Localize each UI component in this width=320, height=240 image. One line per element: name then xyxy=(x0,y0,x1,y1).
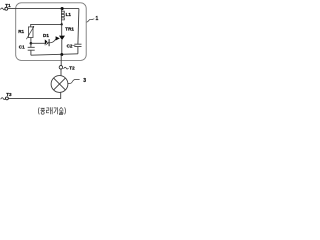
svg-text:C1: C1 xyxy=(19,44,25,49)
node mid junction xyxy=(61,23,63,25)
svg-text:D1: D1 xyxy=(43,33,49,38)
diac D1 xyxy=(45,39,49,46)
node bottom junction xyxy=(60,53,63,56)
wire gate curve xyxy=(49,39,56,43)
resistor R1 arrow xyxy=(26,26,34,39)
caption (jong-rae-gi-sul) xyxy=(38,107,65,114)
svg-text:R1: R1 xyxy=(18,29,24,34)
terminal T2 circle xyxy=(59,66,63,70)
capacitor C1 xyxy=(28,43,35,55)
wire R1 to node A xyxy=(30,38,32,44)
wire L1 to gate node xyxy=(61,22,63,25)
terminal T2 tilde xyxy=(64,67,69,69)
resistor R1 (variable) xyxy=(28,27,33,38)
wire node A to diac xyxy=(31,42,45,44)
wire lamp bottom xyxy=(8,92,60,98)
svg-text:C2: C2 xyxy=(67,43,73,48)
svg-text:L1: L1 xyxy=(66,12,72,17)
lamp 3 circle xyxy=(51,76,68,93)
terminal T3 circle xyxy=(5,97,8,100)
leader to reference 1 xyxy=(87,19,95,22)
node top junction xyxy=(61,7,64,10)
wire right drop to C2 xyxy=(78,9,79,45)
capacitor C2 xyxy=(74,44,81,54)
terminal T1 circle xyxy=(5,7,8,10)
wire top rail xyxy=(8,8,79,10)
terminal T3 tilde xyxy=(1,98,6,100)
svg-text:T2: T2 xyxy=(69,66,75,71)
svg-text:3: 3 xyxy=(83,78,86,84)
wire bottom rail xyxy=(31,54,78,55)
enclosure box 1 xyxy=(16,3,87,61)
wire cross link R1 top xyxy=(31,24,62,27)
C2 label dash xyxy=(73,45,76,47)
lamp X xyxy=(54,78,66,90)
leader to reference 3 xyxy=(68,79,80,83)
terminal T1 tilde xyxy=(1,8,6,10)
svg-text:T3: T3 xyxy=(6,92,12,97)
svg-text:1: 1 xyxy=(96,16,99,22)
inductor L1 xyxy=(61,9,64,22)
wire T2 to lamp xyxy=(60,69,62,76)
svg-text:TR1: TR1 xyxy=(65,26,74,31)
node A junction xyxy=(30,42,33,45)
wire output drop xyxy=(60,55,62,66)
triac TR1 xyxy=(61,24,63,35)
